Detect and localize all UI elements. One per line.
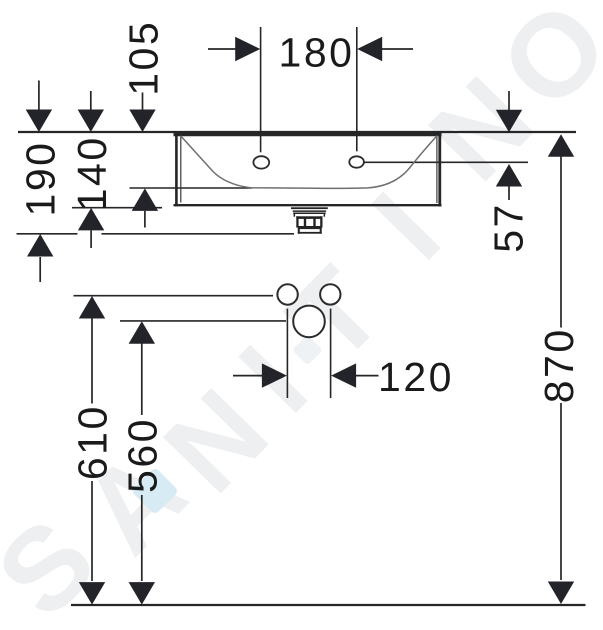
svg-text:190: 190 bbox=[17, 141, 63, 217]
svg-text:105: 105 bbox=[120, 20, 166, 96]
svg-text:57: 57 bbox=[485, 202, 531, 253]
svg-text:140: 140 bbox=[69, 135, 115, 211]
svg-text:870: 870 bbox=[536, 327, 582, 403]
svg-text:610: 610 bbox=[69, 404, 115, 480]
svg-text:180: 180 bbox=[279, 30, 355, 76]
svg-text:560: 560 bbox=[119, 417, 165, 493]
svg-text:120: 120 bbox=[378, 354, 454, 400]
